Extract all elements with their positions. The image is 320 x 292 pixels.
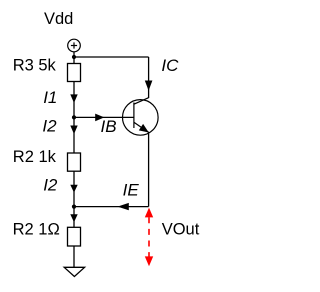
svg-text:R2 1Ω: R2 1Ω: [13, 220, 60, 238]
svg-text:IE: IE: [123, 181, 140, 200]
svg-text:R3 5k: R3 5k: [13, 57, 57, 75]
svg-text:IC: IC: [161, 56, 179, 75]
svg-text:IB: IB: [101, 117, 117, 136]
svg-text:I2: I2: [42, 116, 57, 135]
svg-text:I2: I2: [43, 176, 58, 195]
svg-text:Vdd: Vdd: [44, 10, 73, 28]
svg-text:VOut: VOut: [162, 220, 200, 238]
svg-text:R2 1k: R2 1k: [13, 148, 57, 166]
svg-text:I1: I1: [43, 88, 57, 107]
